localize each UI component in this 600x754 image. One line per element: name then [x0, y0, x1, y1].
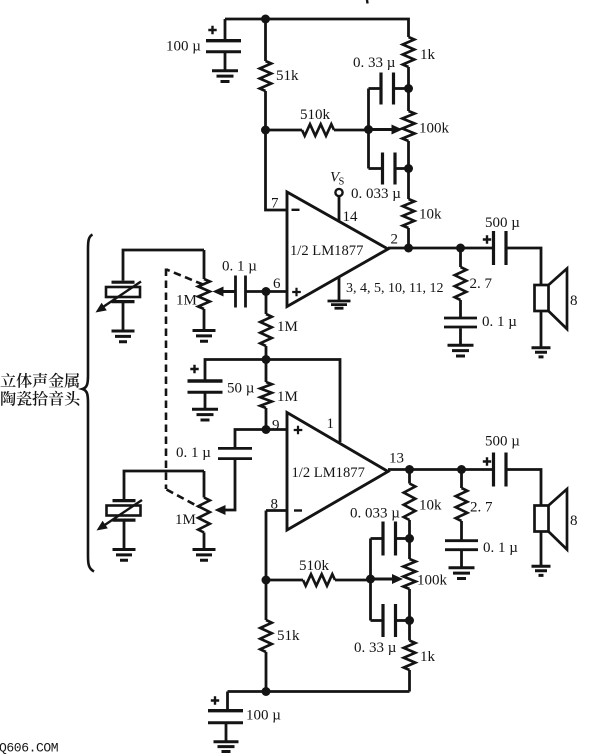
pickup PU2 bottom ceramic [124, 471, 204, 499]
resistor R11 1k bottom [408, 621, 411, 641]
node bias junction [262, 355, 271, 364]
svg-text:Q606.COM: Q606.COM [0, 741, 58, 754]
svg-text:14: 14 [343, 209, 359, 225]
wire to speaker top [506, 248, 541, 285]
svg-text:500 µ: 500 µ [485, 434, 520, 450]
ground below C5 [192, 409, 218, 420]
svg-text:1k: 1k [420, 649, 436, 665]
svg-text:1M: 1M [277, 389, 298, 405]
capacitor C8 0.33u bottom [369, 579, 372, 621]
node output/2.7 top [456, 244, 465, 253]
wire to speaker bottom [506, 470, 541, 506]
svg-text:0. 1 µ: 0. 1 µ [222, 259, 257, 275]
resistor R15 2.7 zobel bottom [460, 470, 463, 489]
resistor R5 10k top [407, 169, 410, 200]
svg-text:1/2 LM1877: 1/2 LM1877 [290, 243, 363, 259]
non-inverting input mark U2 [294, 426, 303, 435]
wire pin 8 [266, 509, 287, 512]
wiper arrow into R13 [215, 505, 226, 515]
inverting input mark U2 [294, 509, 302, 511]
svg-text:2: 2 [391, 232, 399, 248]
node pin9 junction [262, 425, 271, 434]
pickup PU1 top ceramic [123, 250, 204, 281]
label stereo metal ceramic pickup (Chinese) line 2 [1, 391, 16, 406]
node output/2.7 bottom [457, 465, 466, 474]
svg-text:51k: 51k [276, 68, 299, 84]
svg-text:7: 7 [271, 196, 279, 212]
wire output node top channel [388, 247, 494, 250]
capacitor C6 0.1u input bottom [235, 430, 266, 448]
ground below PU2 [113, 550, 136, 561]
svg-text:1k: 1k [420, 47, 436, 63]
resistor R3 1k top [403, 37, 415, 67]
capacitor C1 100u top-left [224, 19, 227, 39]
node C 100k/0.033u/10k junction [404, 164, 413, 173]
svg-text:10k: 10k [419, 498, 442, 514]
capacitor C9 100u bottom [226, 692, 229, 710]
svg-text:50 µ: 50 µ [227, 381, 255, 397]
node pin6 junction [262, 287, 271, 296]
svg-text:8: 8 [570, 293, 578, 309]
svg-text:0. 1 µ: 0. 1 µ [176, 445, 211, 461]
wiper arrow into R7 [221, 290, 236, 293]
op-amp U1 1/2 LM1877 top [287, 192, 388, 307]
node feedback junction bottom [262, 576, 271, 585]
capacitor C3 0.033u top [369, 167, 383, 170]
node output/10k top [404, 244, 413, 253]
potentiometer R4 100k top [407, 89, 410, 112]
ground below speaker top [540, 311, 543, 347]
polarity + of C9 [211, 696, 219, 704]
resistor R6 1M bias upper [265, 292, 268, 315]
resistor R8 1M bias lower [265, 360, 268, 383]
node output/10k bottom [405, 465, 414, 474]
svg-text:1: 1 [327, 416, 335, 432]
wire pin 14 [338, 196, 341, 222]
svg-text:0. 033 µ: 0. 033 µ [350, 506, 400, 522]
polarity + of C15 [483, 457, 491, 465]
svg-text:10k: 10k [419, 207, 442, 223]
wire top supply rail [225, 19, 409, 37]
svg-text:51k: 51k [277, 628, 300, 644]
dashed gang link of dual pot [167, 270, 204, 285]
resistor R1 51k [264, 19, 267, 61]
inverting input mark U1 [292, 209, 300, 211]
wire bottom rail [228, 690, 410, 693]
cropped mark at top edge [366, 0, 369, 4]
ground below C1 [212, 71, 238, 82]
capacitor C12 0.1u zobel top [444, 317, 477, 320]
svg-text:1M: 1M [175, 512, 196, 528]
svg-text:100k: 100k [419, 121, 450, 137]
svg-text:100 µ: 100 µ [246, 708, 281, 724]
svg-text:1M: 1M [176, 293, 197, 309]
potentiometer R13 1M bottom [203, 471, 206, 498]
svg-text:510k: 510k [299, 558, 330, 574]
capacitor C15 500u output bottom [494, 453, 507, 487]
op-amp U2 1/2 LM1877 bottom [287, 413, 388, 531]
wire pin 9 [266, 428, 287, 431]
svg-text:8: 8 [570, 513, 578, 529]
wiper arrow of R4 [369, 128, 395, 131]
node bottom rail junction [262, 687, 271, 696]
svg-text:3, 4, 5, 10, 11, 12: 3, 4, 5, 10, 11, 12 [346, 281, 443, 296]
wire pin 6 input [246, 290, 288, 293]
wire pin8 node down [265, 511, 268, 581]
resistor R12 51k bottom [265, 580, 268, 620]
terminal Vs [335, 189, 342, 196]
svg-text:0. 033 µ: 0. 033 µ [351, 186, 401, 202]
svg-text:9: 9 [272, 418, 280, 434]
wire output node bottom channel [388, 468, 494, 471]
ground below zobel bottom [449, 568, 475, 579]
node feedback junction top [261, 126, 270, 135]
ground below R13 [193, 550, 216, 561]
resistor R9 510k feedback bottom [266, 579, 303, 582]
svg-text:0. 33 µ: 0. 33 µ [353, 55, 396, 71]
ground below R7 [193, 331, 216, 342]
svg-text:0. 33 µ: 0. 33 µ [354, 640, 397, 656]
junction top rail / 51k [261, 15, 270, 24]
variable arrow of PU1 [103, 282, 141, 308]
svg-text:1M: 1M [277, 319, 298, 335]
ground at U1 pins [338, 277, 341, 300]
node D wiper junction bottom [366, 575, 375, 584]
potentiometer R10 100k bottom [408, 539, 411, 560]
brace grouping pickups [83, 235, 95, 572]
ground below zobel top [448, 345, 474, 356]
svg-text:2. 7: 2. 7 [470, 500, 493, 516]
label stereo metal ceramic pickup (Chinese) line 1 [1, 373, 16, 387]
polarity + of C1 [208, 26, 216, 34]
ground below PU1 [112, 331, 135, 342]
capacitor C5 50u bias [205, 360, 266, 381]
polarity + of C13 [483, 235, 491, 243]
capacitor C14 0.1u zobel bottom [445, 539, 478, 542]
resistor R14 2.7 zobel top [459, 248, 462, 267]
ground below C9 [214, 742, 239, 752]
svg-text:500 µ: 500 µ [485, 215, 520, 231]
svg-text:2. 7: 2. 7 [470, 276, 493, 292]
svg-text:0. 1 µ: 0. 1 µ [482, 314, 517, 330]
resistor R5b 10k output bottom [408, 470, 411, 484]
svg-text:6: 6 [273, 276, 281, 292]
svg-text:510k: 510k [300, 107, 331, 123]
wire bias to pin 1 [266, 360, 340, 443]
wire cap branch down to wiper node [367, 89, 370, 131]
ground below speaker bottom [540, 532, 543, 566]
wire wiper node down to 0.033u [367, 130, 370, 169]
svg-text:S: S [339, 177, 345, 188]
wire to pin 7 [266, 130, 288, 210]
capacitor C7 0.033u bottom [369, 539, 372, 580]
svg-text:100k: 100k [417, 573, 448, 589]
node E 10k/0.033u/100k junction bottom [405, 534, 414, 543]
svg-text:13: 13 [389, 451, 404, 467]
polarity + of C5 [190, 365, 198, 373]
capacitor C4 0.1u input top [236, 276, 246, 308]
node B wiper junction top [364, 125, 373, 134]
wiper arrow of R10 [371, 578, 395, 581]
node F 100k/0.33u/1k junction bottom [405, 616, 414, 625]
svg-text:0. 1 µ: 0. 1 µ [483, 540, 518, 556]
speaker SP1 top 8 ohm [535, 285, 549, 311]
svg-text:100 µ: 100 µ [166, 39, 201, 55]
non-inverting input mark U1 [292, 288, 301, 297]
svg-text:1/2 LM1877: 1/2 LM1877 [292, 465, 365, 481]
node A 1k/0.33u/100k junction [404, 84, 413, 93]
variable arrow of PU2 [104, 500, 142, 526]
potentiometer R7 1M top [203, 250, 206, 279]
resistor R2 510k feedback top [266, 129, 303, 132]
capacitor C13 500u output top [494, 231, 507, 265]
speaker SP2 bottom 8 ohm [535, 506, 549, 532]
capacitor C2 0.33u top [369, 87, 382, 90]
